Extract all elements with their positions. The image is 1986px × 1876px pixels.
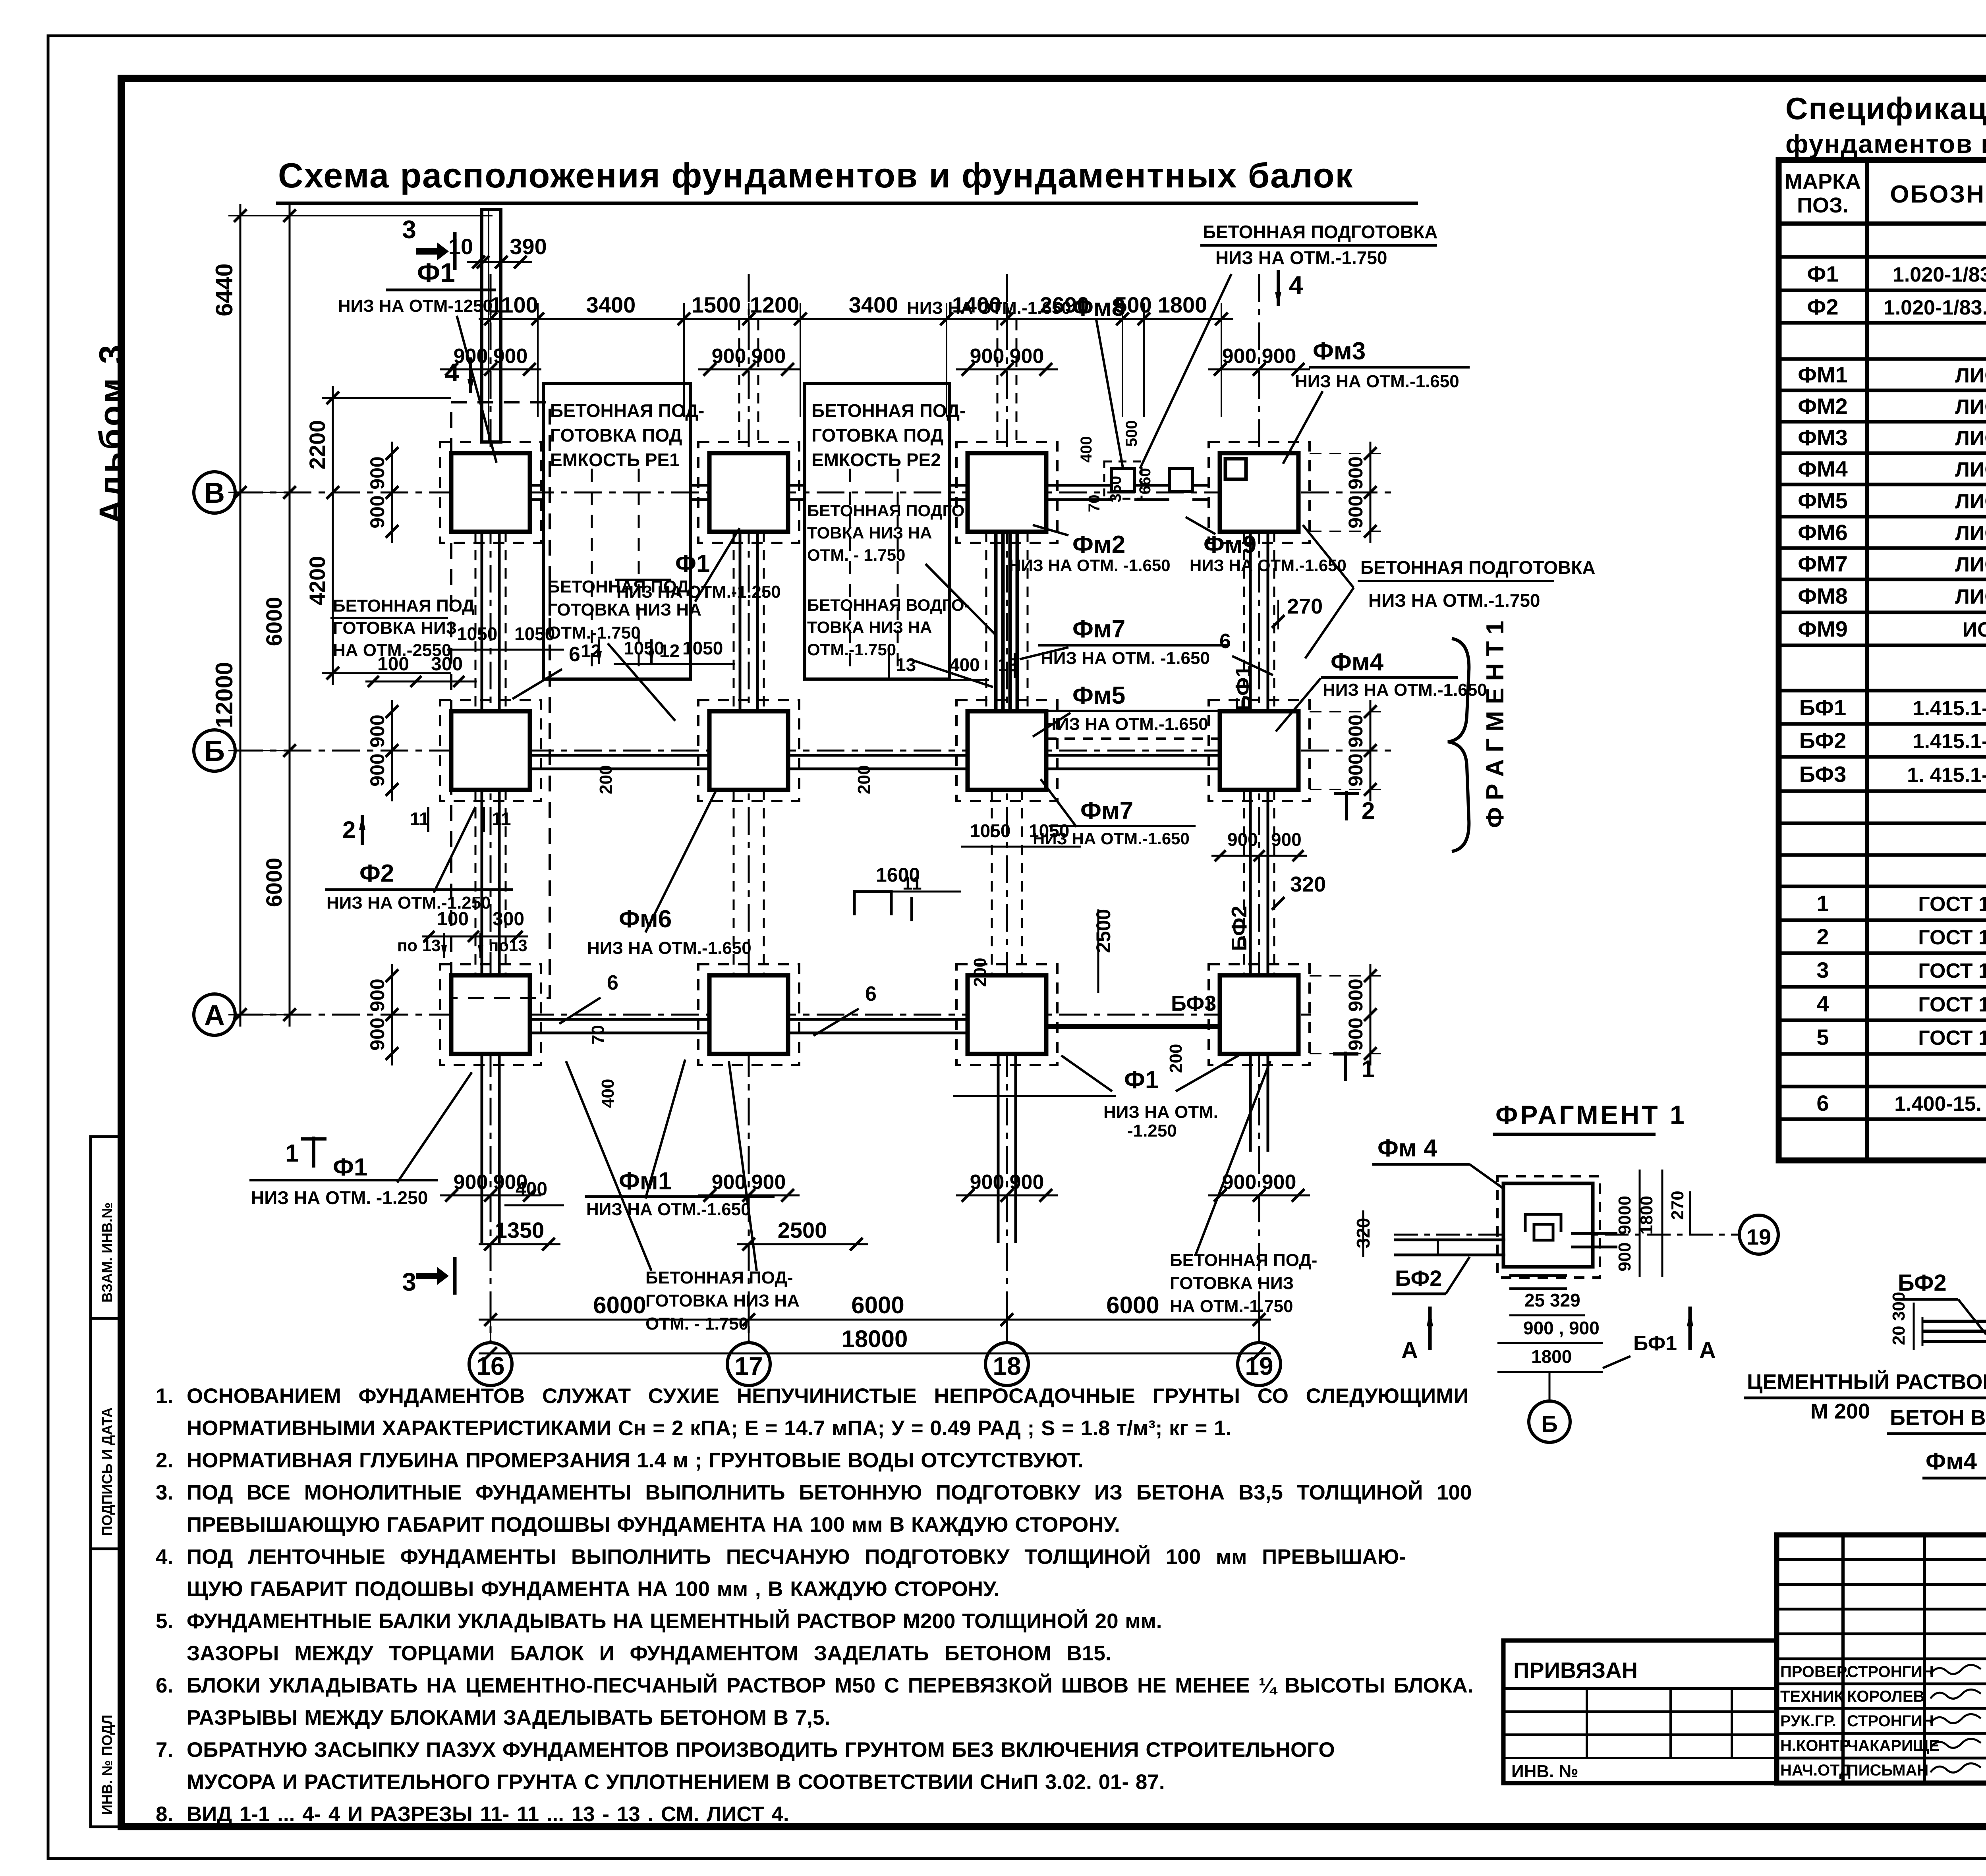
svg-text:Ф1: Ф1	[1807, 261, 1839, 286]
svg-text:1: 1	[1816, 891, 1829, 916]
svg-text:400: 400	[516, 1179, 547, 1200]
svg-text:900: 900	[454, 1171, 488, 1194]
svg-text:ПРОВЕР.: ПРОВЕР.	[1780, 1663, 1849, 1681]
svg-text:11: 11	[492, 809, 511, 829]
svg-text:ИНВ. № ПОДЛ: ИНВ. № ПОДЛ	[99, 1715, 115, 1815]
svg-text:6000: 6000	[261, 597, 286, 647]
svg-text:900 , 900: 900 , 900	[1523, 1318, 1600, 1338]
svg-text:900: 900	[493, 345, 528, 368]
svg-text:ПОДПИСЬ И ДАТА: ПОДПИСЬ И ДАТА	[99, 1407, 115, 1536]
svg-text:ФМ4: ФМ4	[1798, 456, 1848, 481]
svg-text:БФ1: БФ1	[1633, 1332, 1677, 1355]
fragment Фм4 square	[1503, 1183, 1593, 1267]
bottom 18000	[479, 1353, 1271, 1355]
main drawing title	[276, 156, 1418, 203]
svg-text:БЕТОН В15: БЕТОН В15	[1890, 1406, 1986, 1430]
svg-text:БФ1: БФ1	[1799, 695, 1846, 720]
svg-text:1350: 1350	[495, 1218, 545, 1243]
top dimension chain	[479, 318, 1233, 320]
svg-text:900: 900	[752, 345, 786, 368]
svg-text:НИЗ НА ОТМ. -1.650: НИЗ НА ОТМ. -1.650	[1041, 648, 1210, 668]
svg-text:1500: 1500	[692, 292, 741, 317]
title block frame	[1777, 1535, 1986, 1783]
svg-text:2: 2	[342, 816, 355, 843]
svg-text:2200: 2200	[305, 420, 330, 470]
svg-text:КОРОЛЕВ: КОРОЛЕВ	[1847, 1688, 1924, 1705]
привязан box	[1503, 1641, 1777, 1783]
svg-text:Фм6: Фм6	[619, 905, 672, 933]
foundation square Фм4 at 19-Б	[1220, 711, 1298, 790]
svg-text:РАЗРЫВЫ МЕЖДУ БЛОКАМИ ЗАДЕЛЫВА: РАЗРЫВЫ МЕЖДУ БЛОКАМИ ЗАДЕЛЫВАТЬ БЕТОНОМ…	[187, 1706, 830, 1729]
svg-text:3400: 3400	[849, 292, 898, 317]
svg-text:НИЗ НА ОТМ.-1.650: НИЗ НА ОТМ.-1.650	[586, 1200, 751, 1219]
svg-text:17: 17	[734, 1352, 763, 1380]
fragment circle Б	[1549, 1372, 1551, 1401]
wall strip 16 В-Б	[481, 532, 483, 711]
svg-text:300: 300	[493, 909, 524, 930]
beams row В	[530, 484, 543, 487]
beam БФ1 row Б 18-19	[1046, 754, 1220, 757]
svg-text:НИЗ НА ОТМ.-1.650: НИЗ НА ОТМ.-1.650	[1323, 680, 1487, 700]
svg-text:Фм 4: Фм 4	[1377, 1135, 1437, 1162]
svg-text:2500: 2500	[778, 1218, 827, 1243]
beam БФ1 19 В-Б dashed	[1243, 532, 1245, 711]
svg-text:РУК.ГР.: РУК.ГР.	[1780, 1712, 1836, 1730]
svg-text:Ф1: Ф1	[417, 258, 455, 288]
svg-text:6000: 6000	[261, 858, 286, 907]
svg-text:ВЗАМ. ИНВ.№: ВЗАМ. ИНВ.№	[99, 1202, 115, 1303]
wall strip 17 В-Б	[739, 532, 742, 711]
svg-text:400: 400	[949, 654, 980, 675]
svg-text:А: А	[204, 1000, 225, 1031]
svg-text:БЕТОННАЯ ПОД: БЕТОННАЯ ПОД	[333, 596, 475, 616]
svg-text:фундаментов и фундаментных: фундаментов и фундаментных балок.	[1785, 129, 1986, 158]
svg-text:НОРМАТИВНАЯ ГЛУБИНА ПРОМЕРЗАНИ: НОРМАТИВНАЯ ГЛУБИНА ПРОМЕРЗАНИЯ 1.4 м ; …	[187, 1449, 1084, 1472]
svg-text:900: 900	[1262, 1171, 1296, 1194]
svg-text:ОБОЗНАЧЕНИЕ: ОБОЗНАЧЕНИЕ	[1890, 181, 1986, 208]
svg-text:1050: 1050	[682, 638, 723, 658]
svg-text:6000: 6000	[593, 1292, 646, 1318]
svg-text:БЕТОННАЯ ПОД-: БЕТОННАЯ ПОД-	[645, 1268, 793, 1287]
svg-text:900: 900	[366, 1017, 388, 1050]
svg-text:9000: 9000	[1615, 1196, 1634, 1235]
axis circle 16	[469, 1343, 512, 1386]
svg-text:НИЗ НА ОТМ.-1.650: НИЗ НА ОТМ.-1.650	[1190, 556, 1347, 575]
svg-text:7.: 7.	[156, 1738, 173, 1762]
svg-text:В: В	[204, 477, 225, 509]
foundation square Ф1 at 17-В	[709, 453, 788, 532]
left 900 dims	[391, 442, 393, 543]
svg-text:270: 270	[1668, 1191, 1687, 1220]
svg-text:Схема расположения фундамент: Схема расположения фундаментов и фундаме…	[278, 156, 1354, 195]
beams row А	[530, 1018, 709, 1021]
svg-text:19: 19	[1245, 1352, 1273, 1380]
svg-text:100: 100	[437, 909, 469, 930]
dashed prep rect -2.550 on axis 16	[451, 402, 550, 998]
svg-text:320: 320	[1290, 872, 1326, 896]
svg-text:70: 70	[588, 1025, 608, 1044]
svg-text:3: 3	[402, 1268, 416, 1296]
left inner dim 6000/6000	[289, 204, 291, 1027]
svg-text:ЛИСТ 5: ЛИСТ 5	[1955, 364, 1986, 387]
svg-text:1: 1	[285, 1140, 299, 1167]
svg-text:8.: 8.	[156, 1803, 173, 1826]
axis circle А	[194, 994, 235, 1035]
svg-text:6000: 6000	[1106, 1292, 1159, 1318]
axis column 17	[748, 274, 750, 1343]
dashed stubs above В on axis 18	[997, 320, 999, 440]
svg-text:ОТМ. - 1.750: ОТМ. - 1.750	[807, 546, 905, 564]
svg-text:Фм2: Фм2	[1072, 531, 1125, 558]
svg-text:ГОСТ 13579-78: ГОСТ 13579-78	[1918, 926, 1986, 949]
svg-text:ВИД 1-1 ... 4- 4 И РАЗРЕЗЫ 11-: ВИД 1-1 ... 4- 4 И РАЗРЕЗЫ 11- 11 ... 13…	[187, 1803, 789, 1826]
svg-text:900: 900	[1222, 345, 1257, 368]
svg-text:МУСОРА И РАСТИТЕЛЬНОГО ГРУНТА: МУСОРА И РАСТИТЕЛЬНОГО ГРУНТА С УПЛОТНЕН…	[187, 1770, 1165, 1794]
svg-text:ГОТОВКА НИЗ: ГОТОВКА НИЗ	[1170, 1274, 1294, 1293]
svg-text:660: 660	[1136, 468, 1154, 494]
svg-text:900: 900	[1345, 1017, 1367, 1050]
svg-text:ЛИСТ 5: ЛИСТ 5	[1955, 427, 1986, 450]
svg-text:БФ2: БФ2	[1227, 906, 1251, 951]
svg-text:1.020-1/83.1-1-30.0.0: 1.020-1/83.1-1-30.0.0	[1893, 263, 1986, 286]
svg-text:6: 6	[865, 982, 877, 1006]
svg-text:Б: Б	[1541, 1411, 1558, 1437]
foundation square Ф1 at 17-А	[709, 975, 788, 1054]
fragment axis line Б	[1394, 1234, 1738, 1236]
svg-text:200: 200	[596, 765, 616, 794]
svg-text:ЛИСТ 5: ЛИСТ 5	[1955, 522, 1986, 545]
spec table row lines	[1779, 222, 1986, 226]
svg-text:5: 5	[1816, 1025, 1829, 1050]
svg-text:900: 900	[752, 1171, 786, 1194]
svg-text:НИЗ НА ОТМ.-1.650: НИЗ НА ОТМ.-1.650	[1044, 714, 1208, 734]
svg-text:ФУНДАМЕНТНЫЕ БАЛКИ УКЛАДЫВАТЬ: ФУНДАМЕНТНЫЕ БАЛКИ УКЛАДЫВАТЬ НА ЦЕМЕНТН…	[187, 1609, 1162, 1633]
dim 2500	[737, 1243, 868, 1245]
prep rect емкость РЕ2	[805, 384, 949, 679]
svg-text:Альбом 3: Альбом 3	[93, 343, 131, 524]
svg-text:1.400-15. В1. 540-01: 1.400-15. В1. 540-01	[1894, 1092, 1986, 1116]
svg-text:ГОСТ 13579-78: ГОСТ 13579-78	[1918, 1027, 1986, 1050]
svg-text:БЕТОННАЯ ПОДГОТОВКА: БЕТОННАЯ ПОДГОТОВКА	[1203, 222, 1438, 242]
svg-text:1100: 1100	[490, 292, 538, 317]
svg-text:ФРАГМЕНТ 1: ФРАГМЕНТ 1	[1495, 1100, 1687, 1129]
svg-text:4: 4	[445, 358, 459, 387]
svg-text:ФМ3: ФМ3	[1798, 425, 1848, 450]
svg-text:БФ1: БФ1	[1231, 666, 1255, 711]
left outer dim 6440/12000	[240, 204, 241, 1027]
svg-text:А: А	[1401, 1338, 1418, 1363]
svg-text:25 329: 25 329	[1524, 1290, 1580, 1310]
svg-text:МАРКА: МАРКА	[1785, 170, 1861, 193]
svg-text:БЕТОННАЯ ПОДГОТОВКА: БЕТОННАЯ ПОДГОТОВКА	[1360, 557, 1596, 578]
foundation square Ф1 at 16-В	[451, 453, 530, 532]
svg-text:ГОТОВКА НИЗ: ГОТОВКА НИЗ	[333, 618, 457, 638]
svg-text:3: 3	[402, 215, 416, 244]
small foundation Фм9	[1169, 469, 1192, 492]
svg-text:6000: 6000	[851, 1292, 904, 1318]
foundation square Ф1 at 18-В	[968, 453, 1046, 532]
900-900 dims under top chain	[440, 369, 541, 371]
axis circle 17	[727, 1343, 770, 1386]
svg-text:Фм9: Фм9	[1204, 531, 1256, 558]
svg-text:900: 900	[1271, 829, 1302, 850]
svg-text:6: 6	[1816, 1090, 1829, 1116]
svg-text:13: 13	[896, 654, 916, 675]
foundation square Фм6 at 17-Б	[709, 711, 788, 790]
foundation square Ф1 at 16-А	[451, 975, 530, 1054]
svg-text:900: 900	[1345, 979, 1367, 1011]
dim 10/390 top	[467, 261, 532, 263]
svg-text:ЩУЮ ГАБАРИТ ПОДОШВЫ ФУНДАМЕНТА: ЩУЮ ГАБАРИТ ПОДОШВЫ ФУНДАМЕНТА НА 100 мм…	[187, 1577, 999, 1601]
svg-text:ПОД ВСЕ МОНОЛИТНЫЕ ФУНДАМЕНТЫ: ПОД ВСЕ МОНОЛИТНЫЕ ФУНДАМЕНТЫ ВЫПОЛНИТЬ …	[187, 1480, 1472, 1504]
svg-text:НИЗ НА ОТМ.-1.650: НИЗ НА ОТМ.-1.650	[587, 938, 752, 958]
svg-text:900: 900	[366, 456, 388, 489]
svg-text:200: 200	[970, 958, 990, 987]
prep rect емкость РЕ1	[543, 384, 690, 679]
svg-text:4: 4	[1816, 991, 1829, 1016]
svg-text:1.020-1/83.1-1-3.0.0-06: 1.020-1/83.1-1-3.0.0-06	[1884, 296, 1986, 319]
axis circle В	[194, 472, 235, 513]
svg-text:БЕТОННАЯ ПОД-: БЕТОННАЯ ПОД-	[1170, 1251, 1317, 1270]
svg-text:Ф2: Ф2	[359, 860, 394, 887]
svg-text:БЛОКИ УКЛАДЫВАТЬ НА ЦЕМЕНТНО-П: БЛОКИ УКЛАДЫВАТЬ НА ЦЕМЕНТНО-ПЕСЧАНЫЙ РА…	[187, 1673, 1473, 1697]
svg-text:НИЗ НА ОТМ-1250: НИЗ НА ОТМ-1250	[338, 296, 493, 316]
axis circle 18	[985, 1343, 1028, 1386]
svg-text:2: 2	[1816, 924, 1829, 949]
svg-text:900: 900	[1345, 714, 1367, 747]
svg-text:100: 100	[377, 654, 409, 675]
svg-text:ИСТ 6: ИСТ 6	[1963, 618, 1986, 641]
svg-text:1050: 1050	[970, 820, 1010, 841]
wall strip 18 Б-А	[991, 790, 993, 975]
svg-text:Ф1: Ф1	[675, 550, 710, 577]
svg-text:по 13: по 13	[397, 936, 440, 955]
axis circle 19	[1238, 1343, 1281, 1386]
svg-text:6: 6	[569, 643, 580, 666]
svg-text:СТРОНГИН: СТРОНГИН	[1847, 1663, 1934, 1681]
svg-text:ФМ9: ФМ9	[1798, 616, 1848, 641]
beam БФ3 row А 18-19	[1046, 1024, 1220, 1029]
svg-text:ЛИСТ 6: ЛИСТ 6	[1955, 396, 1986, 419]
svg-text:900: 900	[1010, 1171, 1044, 1194]
fragment beams right (БФ1)	[1571, 1232, 1617, 1235]
bottom 6000 chain	[479, 1319, 1271, 1321]
fragment lower slab lines	[1509, 1274, 1567, 1277]
svg-text:900: 900	[712, 345, 746, 368]
tall wall strip above В on axis 16	[482, 210, 501, 442]
svg-text:6.: 6.	[156, 1674, 173, 1697]
svg-text:БЕТОННАЯ ПОДГО: БЕТОННАЯ ПОДГО	[807, 501, 964, 520]
svg-text:1.415.1- 2.1-3-45: 1.415.1- 2.1-3-45	[1913, 697, 1986, 720]
svg-text:НИЗ НА ОТМ.-1.650: НИЗ НА ОТМ.-1.650	[907, 298, 1071, 318]
svg-text:ЛИСТ 6: ЛИСТ 6	[1955, 553, 1986, 576]
wall strip 17 Б-А	[733, 790, 735, 975]
step detail	[854, 892, 891, 915]
svg-text:ТЕХНИК: ТЕХНИК	[1780, 1688, 1844, 1705]
wall strip 16 Б-А	[481, 790, 483, 975]
svg-text:ГОТОВКА НИЗ НА: ГОТОВКА НИЗ НА	[645, 1291, 800, 1310]
svg-text:Фм3: Фм3	[1313, 338, 1366, 365]
svg-text:3400: 3400	[586, 292, 636, 317]
signatures squiggles	[1930, 1665, 1981, 1674]
svg-text:1.415.1- 2.1-2-38: 1.415.1- 2.1-2-38	[1913, 730, 1986, 753]
svg-text:Спецификация к схеме располо: Спецификация к схеме расположения	[1785, 91, 1986, 126]
spec table title	[1785, 91, 1986, 158]
svg-text:400: 400	[1078, 436, 1095, 463]
svg-text:ГОСТ 13579-78: ГОСТ 13579-78	[1918, 959, 1986, 982]
svg-text:3: 3	[1816, 957, 1829, 982]
svg-text:М 200: М 200	[1810, 1399, 1870, 1423]
svg-text:1. 415.1- 2.1- 4-35: 1. 415.1- 2.1- 4-35	[1907, 764, 1986, 787]
svg-text:-1.250: -1.250	[1127, 1121, 1177, 1141]
svg-text:ЛИСТ 6: ЛИСТ 6	[1955, 458, 1986, 481]
svg-text:ОБРАТНУЮ ЗАСЫПКУ ПАЗУХ ФУНДАМЕ: ОБРАТНУЮ ЗАСЫПКУ ПАЗУХ ФУНДАМЕНТОВ ПРОИЗ…	[187, 1738, 1335, 1762]
svg-text:ГОТОВКА ПОД: ГОТОВКА ПОД	[550, 425, 682, 446]
svg-text:ЧАКАРИЩЕ: ЧАКАРИЩЕ	[1847, 1737, 1940, 1754]
svg-text:Фм7: Фм7	[1072, 616, 1125, 643]
wall strip 18 below А	[997, 1054, 1000, 1243]
svg-text:Фм5: Фм5	[1072, 682, 1125, 709]
svg-text:ФМ1: ФМ1	[1798, 362, 1848, 387]
svg-text:500: 500	[1123, 420, 1140, 447]
svg-text:300: 300	[431, 654, 463, 675]
section beams	[1922, 1320, 1986, 1323]
foundation square Фм5 at 18-Б	[968, 711, 1046, 790]
svg-text:ЛИСТ 5: ЛИСТ 5	[1955, 490, 1986, 513]
svg-text:НИЗ НА ОТМ.-1.650: НИЗ НА ОТМ.-1.650	[1295, 372, 1459, 391]
svg-text:ЛИСТ 6: ЛИСТ 6	[1955, 585, 1986, 608]
svg-text:2500: 2500	[1092, 909, 1115, 953]
svg-text:900: 900	[366, 714, 388, 747]
spec table column lines	[1865, 160, 1869, 1160]
svg-text:Ф2: Ф2	[1807, 294, 1839, 319]
axis row Б	[235, 750, 1398, 752]
svg-text:Фм1: Фм1	[619, 1168, 672, 1195]
svg-text:А: А	[1699, 1338, 1716, 1363]
svg-text:НИЗ НА ОТМ.-1.750: НИЗ НА ОТМ.-1.750	[1368, 590, 1540, 611]
svg-text:1200: 1200	[750, 292, 800, 317]
svg-text:Б: Б	[204, 735, 225, 767]
svg-text:900: 900	[366, 495, 388, 528]
svg-text:НОРМАТИВНЫМИ ХАРАКТЕРИСТИКАМИ: НОРМАТИВНЫМИ ХАРАКТЕРИСТИКАМИ Сн = 2 кПА…	[187, 1417, 1231, 1440]
svg-text:2: 2	[1362, 797, 1375, 824]
svg-text:900: 900	[1227, 829, 1258, 850]
svg-text:ЗАЗОРЫ МЕЖДУ ТОРЦАМИ БАЛОК И Ф: ЗАЗОРЫ МЕЖДУ ТОРЦАМИ БАЛОК И ФУНДАМЕНТОМ…	[187, 1642, 1111, 1665]
axis row В	[235, 492, 1398, 494]
svg-text:900: 900	[970, 1171, 1005, 1194]
svg-text:Фм8: Фм8	[1072, 294, 1125, 321]
svg-text:СТРОНГИН: СТРОНГИН	[1847, 1712, 1934, 1730]
svg-text:НИЗ НА ОТМ.: НИЗ НА ОТМ.	[1103, 1102, 1218, 1122]
svg-text:6: 6	[1219, 630, 1231, 653]
wall strip 19 below А	[1249, 1054, 1252, 1152]
svg-text:1050: 1050	[514, 623, 555, 644]
svg-text:БЕТОННАЯ ПОД-: БЕТОННАЯ ПОД-	[811, 400, 966, 421]
svg-text:2.: 2.	[156, 1449, 173, 1472]
svg-text:БФ2: БФ2	[1395, 1266, 1442, 1291]
inner square of Фм3	[1225, 459, 1246, 479]
svg-text:ФМ5: ФМ5	[1798, 488, 1848, 513]
svg-text:19: 19	[1746, 1224, 1771, 1249]
svg-text:ОТМ. - 1.750: ОТМ. - 1.750	[645, 1314, 748, 1334]
spec table outer frame	[1779, 160, 1986, 1160]
title block left grid	[1841, 1535, 1845, 1783]
svg-text:16: 16	[476, 1352, 504, 1380]
svg-text:ЕМКОСТЬ РЕ1: ЕМКОСТЬ РЕ1	[550, 450, 680, 470]
svg-text:ФМ2: ФМ2	[1798, 394, 1848, 419]
svg-text:900: 900	[1010, 345, 1044, 368]
svg-text:12000: 12000	[211, 662, 238, 728]
svg-text:ГОСТ 13579-78: ГОСТ 13579-78	[1918, 993, 1986, 1016]
svg-text:4: 4	[1289, 271, 1303, 299]
svg-text:БФ2: БФ2	[1799, 728, 1846, 753]
svg-text:Ф1: Ф1	[1124, 1066, 1159, 1094]
svg-text:ФМ6: ФМ6	[1798, 520, 1848, 545]
svg-text:1050: 1050	[457, 623, 497, 644]
svg-text:ГОТОВКА НИЗ НА: ГОТОВКА НИЗ НА	[547, 600, 701, 620]
svg-text:1050: 1050	[1029, 820, 1069, 841]
svg-text:18000: 18000	[842, 1326, 908, 1352]
svg-text:ПРИВЯЗАН: ПРИВЯЗАН	[1513, 1658, 1638, 1683]
svg-text:ЕМКОСТЬ РЕ2: ЕМКОСТЬ РЕ2	[811, 450, 941, 470]
svg-text:Фм7: Фм7	[1080, 797, 1133, 824]
svg-text:4200: 4200	[305, 556, 330, 606]
svg-text:БЕТОННАЯ ПОД-: БЕТОННАЯ ПОД-	[547, 577, 695, 596]
svg-text:ПОЗ.: ПОЗ.	[1797, 193, 1849, 217]
dashed stubs above В on axis 17	[738, 320, 740, 440]
foundation square Ф1 at 19-А	[1220, 975, 1298, 1054]
svg-text:6: 6	[607, 971, 618, 994]
svg-text:1800: 1800	[1158, 292, 1207, 317]
svg-text:ФМ7: ФМ7	[1798, 551, 1848, 576]
svg-text:НИЗ НА ОТМ. -1.250: НИЗ НА ОТМ. -1.250	[251, 1187, 428, 1208]
svg-text:НАЧ.ОТД: НАЧ.ОТД	[1780, 1762, 1851, 1779]
foundation square Ф2 at 16-Б	[451, 711, 530, 790]
svg-text:350: 350	[1107, 476, 1124, 502]
svg-text:1050: 1050	[624, 638, 664, 658]
foundation square Ф1 at 18-А	[968, 975, 1046, 1054]
svg-text:900: 900	[970, 345, 1005, 368]
svg-text:Н.КОНТР: Н.КОНТР	[1780, 1737, 1850, 1754]
svg-text:Ф Р А Г М Е Н Т 1: Ф Р А Г М Е Н Т 1	[1482, 621, 1509, 828]
svg-text:900: 900	[366, 753, 388, 786]
svg-text:18: 18	[993, 1352, 1021, 1380]
svg-text:БЕТОННАЯ ПОД-: БЕТОННАЯ ПОД-	[550, 400, 704, 421]
svg-text:3.: 3.	[156, 1481, 173, 1504]
extension lines left	[228, 492, 302, 493]
svg-text:20 300: 20 300	[1889, 1292, 1909, 1345]
svg-text:НИЗ НА ОТМ.-1.750: НИЗ НА ОТМ.-1.750	[1215, 247, 1387, 268]
svg-text:НА ОТМ.-1.750: НА ОТМ.-1.750	[1170, 1297, 1293, 1316]
svg-text:1600: 1600	[876, 864, 920, 886]
svg-text:4.: 4.	[156, 1545, 173, 1569]
svg-text:400: 400	[598, 1079, 618, 1108]
bottom 900 dims	[440, 1195, 541, 1197]
fragment circle 19	[1739, 1215, 1778, 1254]
svg-text:11: 11	[410, 809, 429, 829]
svg-text:БФ3: БФ3	[1799, 762, 1846, 787]
svg-text:НИЗ НА ОТМ. -1.650: НИЗ НА ОТМ. -1.650	[1009, 556, 1171, 575]
axis column 19	[1258, 274, 1260, 1343]
right side 900 dims at col 19	[1310, 453, 1382, 454]
svg-text:270: 270	[1287, 594, 1323, 618]
svg-text:5.: 5.	[156, 1610, 173, 1633]
fragment brace	[1448, 639, 1469, 851]
left margin stamp boxes	[91, 1137, 121, 1827]
small foundation Фм8	[1111, 469, 1134, 492]
svg-text:70: 70	[1086, 495, 1103, 513]
svg-text:ТОВКА НИЗ НА: ТОВКА НИЗ НА	[807, 523, 932, 542]
